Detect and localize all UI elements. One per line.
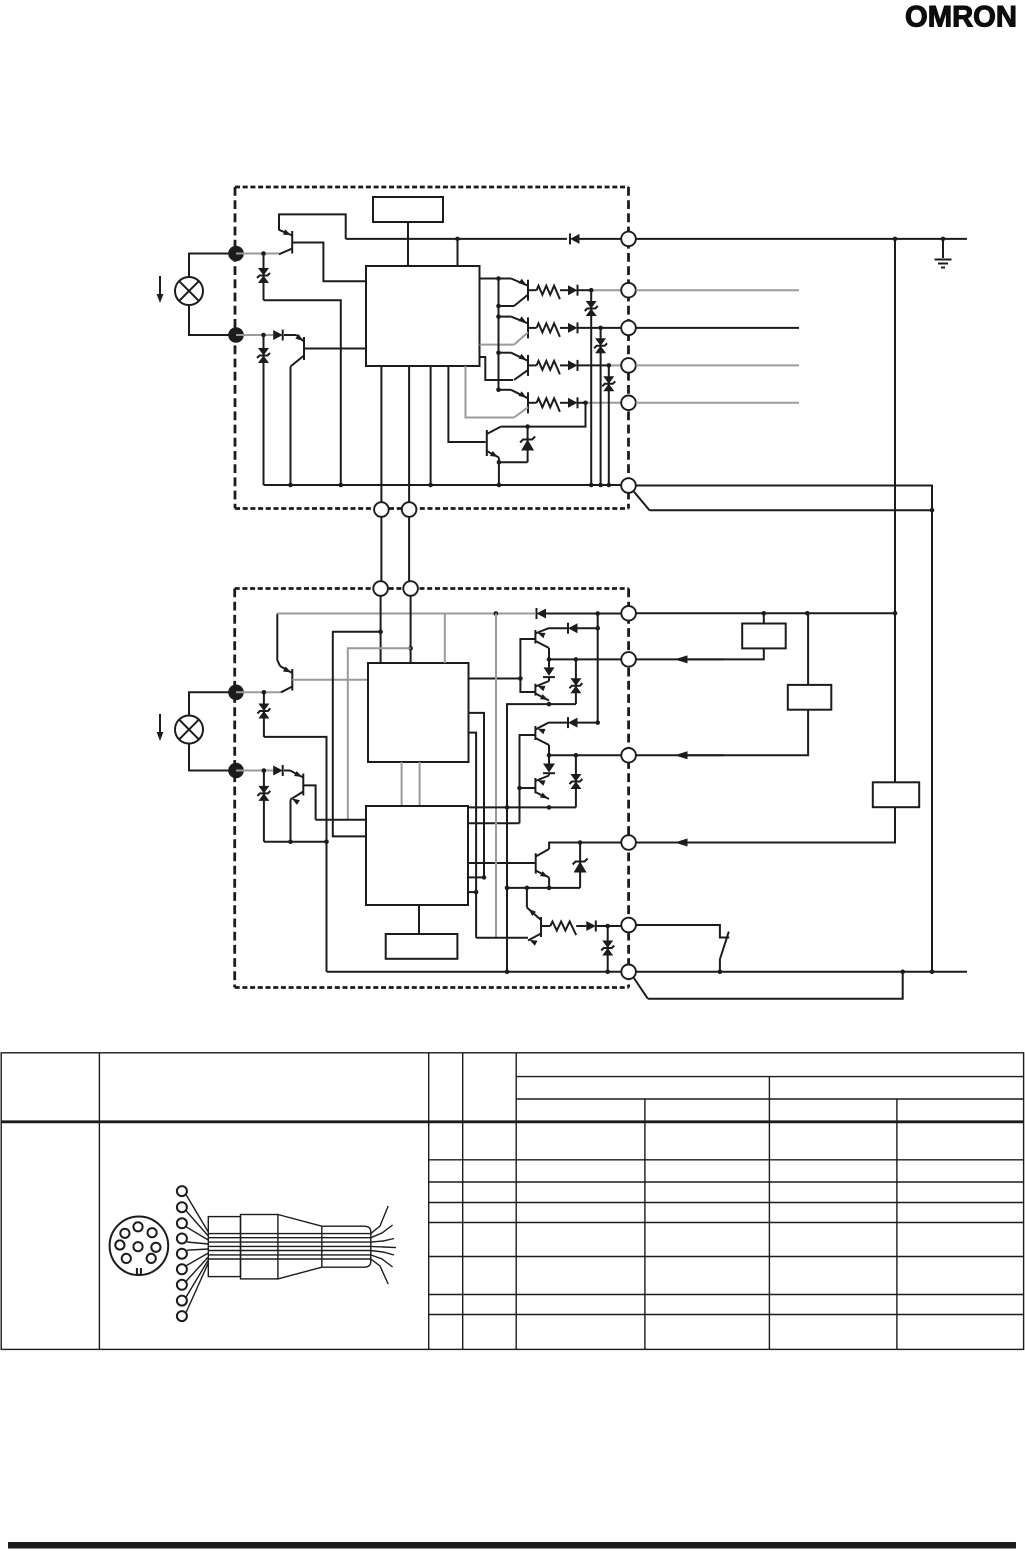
IC3 bottom pin to bias rect: [418, 905, 420, 934]
cable conductor 4: [208, 1245, 370, 1247]
terminal node 4 (black dot): [228, 763, 244, 779]
right vertical link: [597, 614, 599, 723]
output transistor Q4 (top box row 4): [527, 392, 529, 413]
svg-text:OMRON: OMRON: [905, 1, 1017, 34]
table column line 1: [98, 1053, 100, 1349]
signal arrow pin10: [675, 839, 688, 847]
wire circle1 to ground rail: [636, 238, 967, 240]
link circle D (bottom box top edge): [403, 581, 418, 596]
link wire B: [408, 517, 410, 581]
Qf base wire: [476, 937, 528, 939]
connector circle pin5: [621, 396, 636, 411]
emitter return wire (darlington 2): [468, 806, 576, 808]
internal ground bus of top box: [264, 484, 622, 486]
darlington pair Qa/Qb: [534, 630, 536, 644]
cable conductor 6: [208, 1254, 370, 1256]
Qa output wire with diode D5: [549, 627, 568, 629]
cable barrel: [322, 1226, 371, 1267]
IC3 pin to mid vertical: [468, 876, 484, 878]
connector pin hole 6: [151, 1243, 160, 1252]
Qe emitter return wire: [507, 887, 580, 889]
table column line 2: [428, 1053, 430, 1349]
external wire pin2: [636, 289, 799, 291]
IC1 return row 2 (gray): [480, 344, 515, 346]
IC3 pin to Qe base: [468, 862, 536, 864]
IC2 pin jog down (mid): [469, 713, 485, 878]
cable fray strand 7: [371, 1259, 388, 1284]
cable conductor 5: [208, 1250, 370, 1252]
zener Z11: [607, 926, 609, 972]
IC1 pin to T5 base: [448, 366, 485, 442]
output transistor Q1 (top box row 1): [527, 280, 529, 301]
cable fray strand 2: [371, 1225, 393, 1238]
base rail into IC3: [316, 819, 366, 821]
zener Z10: [579, 843, 581, 888]
cable crimp section 1: [208, 1217, 240, 1277]
pin6 lower return wire: [650, 509, 933, 511]
ground symbol: [942, 239, 944, 258]
connector circle pin12: [621, 965, 636, 980]
T2 collector drop to bus: [290, 367, 292, 486]
T1 emitter rail to output wire: [279, 214, 346, 239]
lead wire ring 6: [177, 1264, 187, 1274]
lead wire 4: [187, 1242, 208, 1244]
lead wire ring 7: [177, 1280, 187, 1290]
cable crimp section 2: [241, 1215, 278, 1279]
lead wire ring 1: [177, 1186, 187, 1196]
output transistor Q3 (top box row 3): [527, 355, 529, 376]
connector pin hole 8: [147, 1254, 156, 1263]
IC3 control block: [366, 806, 468, 905]
diode D1 on top wire: [570, 234, 580, 244]
table body row rule 7: [429, 1314, 1024, 1316]
switch wire from pin11: [636, 925, 729, 938]
dashed IC boundary box (top driver): [235, 186, 629, 189]
wire lamp to terminal 3: [189, 692, 229, 715]
terminal node 1 (black dot): [228, 246, 244, 262]
wire lamp to terminal 1: [189, 254, 229, 278]
IC2 top pin from supply (gray): [444, 614, 446, 664]
lamp load (bottom): [175, 716, 203, 744]
zener Z7 (under terminal 4): [263, 771, 265, 842]
zener Z9 on output row: [575, 755, 577, 807]
lead wire ring 4: [177, 1234, 187, 1244]
lead wire 2: [186, 1211, 208, 1236]
T3 emitter rail to supply wire: [277, 614, 280, 667]
IC1 feed to output row 1: [480, 278, 512, 280]
interstage diode Qa-Qb: [548, 648, 550, 667]
relay box B2: [788, 685, 832, 710]
IC1 pin to row4 return (gray): [466, 366, 515, 418]
B1 to pin8 wire: [636, 648, 764, 659]
signal arrow pin9: [675, 751, 688, 759]
connector pin hole 5: [133, 1242, 142, 1251]
connector pin hole 2: [120, 1229, 129, 1238]
table header sub-rule 2: [516, 1098, 1023, 1100]
connector circle pin3: [621, 321, 636, 336]
external wire pin3: [636, 327, 799, 329]
lead wire 9: [186, 1263, 208, 1313]
zener column Z3c on row3 line: [608, 365, 610, 485]
link wire A into IC2: [380, 595, 382, 663]
T1 base wire to IC1: [292, 243, 366, 282]
current direction arrow (bottom): [159, 714, 161, 734]
IC2 bottom pin 2 to IC3 (gray): [419, 762, 421, 806]
lead wire 3: [186, 1227, 208, 1240]
diode D3 on supply wire: [537, 609, 547, 619]
IC1 control block: [366, 266, 480, 366]
table header bottom rule (thick): [1, 1120, 1023, 1123]
zener Z6 (under terminal 3): [263, 692, 265, 737]
link circle C (bottom box top edge): [373, 581, 388, 596]
IC2 drive to darlington 1: [469, 678, 521, 680]
wire lamp to terminal 4: [189, 744, 229, 771]
terminal node 3 (black dot): [228, 685, 244, 701]
transistor T3: [291, 669, 293, 691]
B3 to pin10 wire: [636, 807, 895, 842]
wire terminal2 with diode D2: [236, 334, 273, 336]
output row wire (pin 3 of bottom box): [549, 754, 621, 756]
bottom bus of bottom box: [327, 971, 622, 973]
link wire B into IC2: [410, 595, 412, 663]
resistor R3: [537, 361, 560, 375]
connector circle pin8: [621, 652, 636, 667]
zener column Z3b on row2 line: [600, 328, 602, 485]
sense vertical from supply (gray): [495, 614, 497, 938]
zener Z2 (under terminal 2): [263, 335, 265, 485]
cable fray strand 3: [371, 1239, 394, 1243]
connector circle pin4: [621, 358, 636, 373]
terminal node 2 (black dot): [228, 327, 244, 343]
connector circle pin1: [621, 232, 636, 247]
table body row rule 4: [429, 1222, 1024, 1224]
lead wire ring 9: [177, 1311, 187, 1321]
cable conductor 2: [208, 1237, 370, 1239]
table body row rule 6: [429, 1294, 1024, 1296]
interstage diode Qc-Qd: [548, 745, 550, 764]
Qc output wire with diode D6: [549, 722, 568, 724]
connector key notch: [137, 1268, 141, 1275]
zener Z1 (surge absorber under terminal 1): [263, 254, 265, 301]
table column line 4: [515, 1053, 517, 1349]
wire terminal3 to T3: [236, 691, 281, 693]
resistor R2: [537, 323, 560, 337]
relay box B1: [742, 624, 786, 649]
cable fray strand 6: [371, 1255, 393, 1267]
table column line 7: [896, 1099, 898, 1349]
output transistor Q2 (top box row 2): [527, 317, 529, 338]
transistor T4: [302, 774, 304, 796]
switch lever: [720, 932, 729, 959]
IC2 bottom pin to IC3 (gray): [401, 762, 403, 806]
feedback branch to IC3 (gray): [348, 648, 411, 820]
cable conductor 1: [208, 1233, 370, 1235]
emitter return wire (darlington 1): [507, 704, 576, 972]
IC2 pin jog down to Qf base: [469, 733, 477, 938]
cable fray strand 4: [371, 1246, 396, 1247]
lead wire ring 8: [177, 1296, 187, 1306]
signal arrow pin8: [675, 655, 688, 663]
resistor R4: [537, 398, 560, 412]
top output wire (pin 1 line): [346, 238, 567, 240]
lamp load (top): [175, 277, 203, 305]
bias block rectangle: [373, 197, 443, 222]
IC3 pin stub: [468, 891, 476, 893]
connector pin hole 1: [133, 1222, 142, 1231]
table body row rule 3: [429, 1202, 1024, 1204]
external supply wire from pin7: [636, 612, 895, 614]
lead wire ring 3: [177, 1218, 187, 1228]
external wire pin6 to bottom bus: [636, 486, 932, 972]
diode D4r: [568, 398, 578, 408]
lead wire 7: [186, 1257, 208, 1281]
zener return wire to bottom bus: [264, 841, 327, 843]
table column line 6: [768, 1077, 770, 1350]
table body row rule 5: [429, 1256, 1024, 1258]
lead wire ring 5: [177, 1249, 187, 1259]
connector pin hole 4: [115, 1240, 124, 1249]
connector circle pin10: [621, 835, 636, 850]
wire lamp to terminal 2: [189, 305, 229, 335]
wire bias block to IC1: [407, 222, 409, 266]
cable fray strand 5: [371, 1251, 394, 1256]
external wire pin4: [636, 364, 799, 366]
supply wire of bottom box: [277, 613, 535, 615]
lead wire ring 2: [177, 1202, 187, 1212]
connector circle pin7: [621, 606, 636, 621]
table body row rule 1: [429, 1159, 1024, 1161]
cable taper top: [278, 1215, 322, 1227]
link circle B (between boxes): [402, 502, 417, 517]
diode D1r: [568, 285, 578, 295]
transistor Qe: [535, 853, 537, 873]
output row wire (pin 2 of bottom box): [549, 658, 621, 660]
diode D7: [586, 921, 596, 931]
link wire A: [380, 517, 382, 581]
IC1 pin to link circle A: [380, 366, 382, 502]
switch lower stub: [719, 959, 721, 972]
footer rule (thick): [8, 1542, 1016, 1549]
external wire pin5: [636, 402, 799, 404]
wire terminal4 with diode D4: [236, 770, 273, 772]
row4 link down to T5 collector: [501, 403, 586, 427]
lead wire 6: [186, 1253, 208, 1266]
table body row rule 2: [429, 1181, 1024, 1183]
cable conductor 7: [208, 1258, 370, 1260]
common emitter rail of output rows: [498, 279, 500, 390]
vertical rail from pin1 wire down to bottom block: [894, 239, 896, 613]
pin6 stub diagonal: [634, 492, 650, 511]
resistor R5: [541, 925, 550, 927]
T3 base to IC2 (gray): [292, 679, 368, 681]
connector face circle: [110, 1217, 169, 1276]
connector circle pin9: [621, 748, 636, 763]
zener column Z3a on row1 line: [590, 290, 592, 485]
lead wire 1: [186, 1195, 208, 1232]
diode D3r: [568, 360, 578, 370]
link circle A (between boxes): [374, 502, 389, 517]
table column line 5: [644, 1099, 646, 1349]
bias block rectangle (bottom): [386, 934, 458, 959]
connector pin hole 3: [148, 1228, 157, 1237]
table header sub-rule 1: [516, 1076, 1023, 1078]
current direction arrow (top): [159, 276, 161, 296]
external bottom wire from pin12: [636, 971, 967, 973]
lead wire 8: [186, 1260, 208, 1297]
pin12 lower return wire: [648, 972, 903, 999]
transistor T2 (PNP, lower-left of top box): [303, 337, 305, 360]
IC1 return row 3: [480, 357, 514, 380]
connector circle pin2: [621, 283, 636, 298]
wire terminal1 to T1: [236, 253, 279, 255]
connector pin hole 7: [122, 1254, 131, 1263]
table outer border: [1, 1053, 1023, 1350]
IC1 pin to bus: [430, 366, 432, 485]
IC2 control block: [368, 663, 469, 762]
transistor T1 (PNP, top-left): [291, 231, 293, 254]
diode D2r: [568, 323, 578, 333]
connector circle pin11: [621, 918, 636, 933]
IC3 drive to darlington 2: [468, 822, 520, 824]
T2 base wire to IC1: [304, 348, 366, 350]
IC1 pin to link circle B: [408, 366, 410, 502]
zener Z5 (T5 collector clamp): [527, 427, 529, 463]
resistor R1: [537, 286, 560, 300]
transistor T5 (clamp): [486, 430, 488, 456]
output transistor Qf: [540, 917, 542, 937]
cable fray strand 1: [371, 1206, 388, 1234]
feedback branch to IC3 (left): [333, 632, 381, 837]
darlington pair Qc/Qd: [534, 726, 536, 740]
T4 base jog to IC3 rail: [303, 785, 315, 819]
wire top rail to IC1: [457, 239, 459, 266]
B2 to pin9 wire: [636, 710, 808, 756]
cable taper bottom: [278, 1267, 322, 1279]
zener Z8 on output row: [575, 659, 577, 704]
connector circle pin6: [621, 478, 636, 493]
T4 collector drop: [290, 800, 292, 842]
pin12 stub diagonal: [634, 978, 648, 999]
relay box B3: [873, 782, 919, 807]
table column line 3: [462, 1053, 464, 1349]
dashed IC boundary box (bottom driver): [235, 587, 629, 590]
cable conductor 3: [208, 1241, 370, 1243]
lead wire 5: [187, 1249, 208, 1250]
